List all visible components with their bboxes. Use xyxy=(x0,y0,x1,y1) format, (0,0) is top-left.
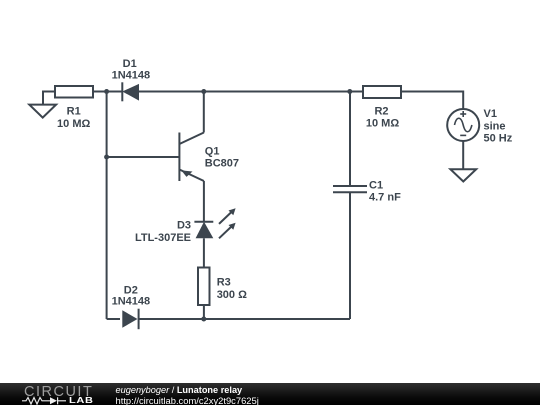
diode D2 xyxy=(112,285,151,330)
svg-text:10 MΩ: 10 MΩ xyxy=(57,118,90,130)
node junction top C1 xyxy=(347,89,352,94)
wire top rail D1 to R2 xyxy=(139,91,363,93)
wire emitter to LED xyxy=(203,181,205,222)
footer bar xyxy=(0,383,540,405)
wire R1 to D1 xyxy=(93,91,122,93)
svg-text:50 Hz: 50 Hz xyxy=(484,133,513,145)
svg-text:1N4148: 1N4148 xyxy=(112,296,151,308)
node junction bottom xyxy=(201,317,206,322)
svg-text:4.7 nF: 4.7 nF xyxy=(369,192,401,204)
node junction base xyxy=(104,155,109,160)
wire V1 to ground xyxy=(462,141,464,169)
resistor R2 xyxy=(363,86,401,129)
svg-text:1N4148: 1N4148 xyxy=(112,70,151,82)
diode D1 xyxy=(112,58,151,101)
wire R2 to V1 xyxy=(401,92,463,110)
wire left vertical xyxy=(106,92,108,320)
ground GND1 (left) xyxy=(29,92,56,118)
capacitor C1 xyxy=(333,179,401,203)
svg-text:300 Ω: 300 Ω xyxy=(217,289,247,301)
resistor R1 xyxy=(55,86,93,130)
wire base xyxy=(107,156,180,158)
svg-text:sine: sine xyxy=(484,121,506,133)
svg-text:R2: R2 xyxy=(374,106,388,118)
svg-text:R3: R3 xyxy=(217,277,231,289)
source V1 xyxy=(447,108,513,145)
svg-text:Q1: Q1 xyxy=(205,146,220,158)
svg-text:D3: D3 xyxy=(177,220,191,232)
svg-text:R1: R1 xyxy=(67,106,81,118)
svg-text:10 MΩ: 10 MΩ xyxy=(366,117,399,129)
svg-text:D1: D1 xyxy=(123,58,137,70)
wire R3 to bottom rail xyxy=(203,305,205,319)
transistor Q1 xyxy=(179,133,239,182)
wire collector drop xyxy=(203,92,205,133)
wire right vertical (C1 branch) xyxy=(349,92,351,187)
svg-text:V1: V1 xyxy=(484,108,497,120)
node junction left-top xyxy=(104,89,109,94)
ground GND2 (under V1) xyxy=(450,169,476,181)
resistor R3 xyxy=(198,268,247,306)
svg-text:LTL-307EE: LTL-307EE xyxy=(135,232,191,244)
svg-text:C1: C1 xyxy=(369,179,383,191)
wire bottom rail xyxy=(107,318,350,320)
node junction top collector xyxy=(201,89,206,94)
footer title text xyxy=(116,385,243,395)
svg-text:BC807: BC807 xyxy=(205,158,239,170)
CircuitLab logo xyxy=(24,385,93,399)
wire LED to R3 xyxy=(203,238,205,267)
footer url text xyxy=(116,396,259,405)
LED D3 xyxy=(135,208,236,244)
